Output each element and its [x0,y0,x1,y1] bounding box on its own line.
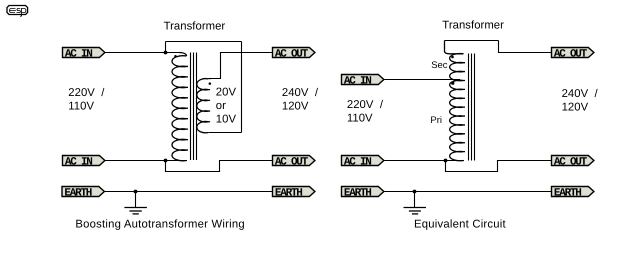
svg-text:AC OUT: AC OUT [554,157,588,169]
svg-text:Sec: Sec [431,60,448,71]
svg-text:EARTH: EARTH [275,188,302,200]
svg-text:240V /: 240V / [562,88,599,100]
svg-text:110V: 110V [347,112,373,124]
svg-text:Pri: Pri [430,115,442,126]
svg-text:AC OUT: AC OUT [275,157,309,169]
svg-text:AC IN: AC IN [65,157,92,169]
svg-text:EARTH: EARTH [554,188,581,200]
svg-text:AC IN: AC IN [344,76,371,88]
svg-text:Transformer: Transformer [442,19,504,31]
svg-text:AC IN: AC IN [344,157,371,169]
svg-text:AC OUT: AC OUT [275,49,309,61]
svg-text:Transformer: Transformer [164,21,226,33]
svg-text:20V: 20V [216,86,237,98]
svg-text:240V /: 240V / [282,87,319,99]
svg-text:120V: 120V [282,100,309,112]
svg-text:110V: 110V [68,100,94,112]
svg-text:220V /: 220V / [68,87,105,99]
svg-text:Boosting Autotransformer Wirin: Boosting Autotransformer Wiring [75,218,244,230]
svg-text:10V: 10V [216,114,237,126]
svg-text:Equivalent Circuit: Equivalent Circuit [414,218,507,230]
svg-text:or: or [216,100,226,112]
svg-text:EARTH: EARTH [64,188,91,200]
svg-text:AC IN: AC IN [65,49,92,61]
svg-text:220V /: 220V / [347,99,384,111]
svg-text:AC OUT: AC OUT [554,49,588,61]
svg-text:EARTH: EARTH [344,188,371,200]
svg-text:120V: 120V [562,101,589,113]
